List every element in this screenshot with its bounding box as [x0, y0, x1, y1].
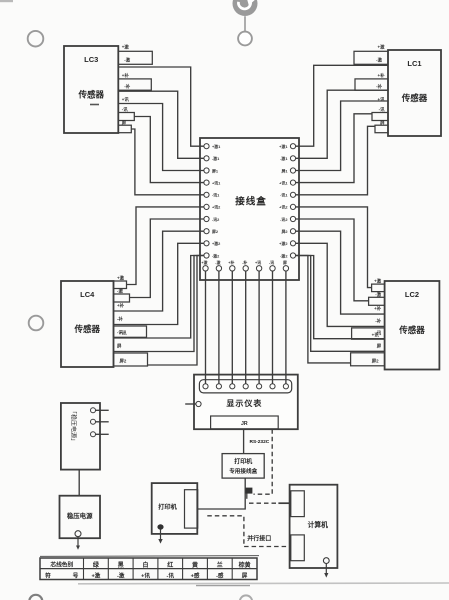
- svg-text:-激1: -激1: [212, 156, 220, 161]
- wire LC2-3 to junction R8: [296, 231, 385, 314]
- svg-text:+激: +激: [91, 572, 100, 580]
- wire LC4-5 to junction L10: [114, 256, 204, 339]
- svg-text:+激: +激: [122, 44, 130, 51]
- computer box 计算机: [290, 485, 338, 568]
- svg-text:-激: -激: [117, 288, 123, 295]
- junction box right terminal strip: [290, 144, 295, 149]
- svg-text:显示仪表: 显示仪表: [226, 398, 262, 408]
- LC1 stub block 3: [372, 113, 388, 121]
- wire LC4-4 to junction L9: [114, 243, 204, 324]
- dashed wire display to plug: [254, 429, 273, 494]
- svg-text:传感器: 传感器: [77, 90, 104, 100]
- svg-text:屏: 屏: [122, 119, 127, 126]
- svg-text:+激: +激: [201, 260, 207, 265]
- LC4 stub block 2: [114, 294, 130, 302]
- power control box: [61, 403, 100, 470]
- svg-text:兰: 兰: [217, 561, 223, 569]
- svg-text:+激2: +激2: [212, 241, 221, 246]
- wire LC1-1 to junction R1: [296, 65, 388, 146]
- svg-text:「稳压电源」: 「稳压电源」: [70, 408, 78, 444]
- svg-text:-讯: -讯: [375, 330, 381, 337]
- svg-text:-讯: -讯: [122, 106, 128, 113]
- svg-text:JR: JR: [241, 421, 248, 427]
- power control terminals: [91, 408, 96, 413]
- svg-text:屏2: 屏2: [280, 229, 288, 234]
- display instrument 显示仪表 box: [194, 375, 298, 430]
- svg-text:传感器: 传感器: [73, 324, 100, 334]
- computer port top: [291, 491, 305, 517]
- wire LC2-7 to junction R10: [296, 256, 351, 363]
- wire LC2-6 to junction R10: [296, 256, 385, 352]
- svg-text:屏1: 屏1: [280, 168, 288, 173]
- svg-text:屏: 屏: [117, 343, 122, 350]
- svg-text:-讯2: -讯2: [280, 217, 288, 222]
- wire LC3-1 to junction L1: [118, 67, 204, 146]
- rotate handle stem: [244, 16, 246, 31]
- svg-text:+讯: +讯: [141, 572, 150, 580]
- svg-text:棕黄: 棕黄: [238, 561, 251, 569]
- wire LC3-2 to junction L2: [118, 91, 204, 158]
- svg-text:+讯2: +讯2: [279, 205, 288, 210]
- svg-text:+讯: +讯: [255, 260, 261, 265]
- svg-text:号: 号: [73, 571, 79, 579]
- printer box 打印机: [152, 483, 198, 534]
- display terminal strip box: [199, 380, 291, 393]
- wire junction B6 to display: [272, 271, 274, 384]
- wire junction B4 to display: [245, 271, 247, 384]
- LC4 stub block 6: [114, 353, 148, 366]
- svg-text:-补: -补: [376, 83, 382, 90]
- selection handle top-left: [28, 31, 44, 47]
- svg-text:-激: -激: [117, 572, 125, 580]
- svg-text:+激: +激: [117, 275, 125, 282]
- svg-text:LC4: LC4: [80, 290, 95, 299]
- LC2 stub block 1: [372, 284, 385, 292]
- svg-text:黄: 黄: [192, 561, 198, 569]
- LC3 stub block 4: [118, 125, 131, 133]
- selection handle bottom-left arc: [29, 595, 42, 600]
- svg-text:稳压电源: 稳压电源: [67, 511, 93, 520]
- regulator ground: [75, 531, 81, 537]
- svg-text:+补: +补: [122, 72, 130, 79]
- wire LC3-4 to junction L4: [134, 117, 204, 183]
- svg-text:接线盒: 接线盒: [235, 196, 267, 208]
- wire LC4-7 to junction L10: [148, 256, 204, 366]
- printer adapter box 打印机专用接线盒: [222, 454, 264, 479]
- rotate handle circle: [238, 32, 252, 46]
- LC2 box: [385, 281, 440, 370]
- svg-text:-补: -补: [242, 260, 247, 265]
- wire LC4-1 to junction L6: [127, 207, 204, 285]
- junction box left terminal strip: [204, 144, 209, 149]
- wire junction B7 to display: [285, 271, 287, 384]
- svg-text:-感: -感: [216, 572, 224, 580]
- svg-text:绿: 绿: [93, 561, 100, 569]
- svg-text:+讯1: +讯1: [279, 180, 288, 185]
- svg-text:白: 白: [142, 561, 148, 569]
- junction box 接线盒: [200, 138, 299, 280]
- voltage regulator 稳压电源 box: [60, 496, 101, 539]
- svg-text:-讯1: -讯1: [280, 193, 288, 198]
- wire color table frame: [40, 558, 257, 580]
- svg-text:-补: -补: [124, 83, 130, 90]
- wire LC1-5 to junction R5: [296, 126, 375, 195]
- LC3 stub block 2: [118, 79, 151, 90]
- wire adapter to printer: [198, 478, 246, 509]
- wire LC2-1 to junction R6: [296, 207, 372, 288]
- LC4 box: [61, 281, 114, 367]
- svg-text:+感: +感: [191, 572, 200, 580]
- svg-text:-讯: -讯: [379, 106, 385, 113]
- wire LC2-2 to junction R7: [296, 219, 369, 301]
- svg-text:-激2: -激2: [212, 253, 220, 258]
- connector JR box: [211, 416, 279, 429]
- svg-text:芯线色别: 芯线色别: [50, 561, 73, 569]
- svg-text:-激1: -激1: [280, 156, 288, 161]
- svg-text:RS-232C: RS-232C: [250, 439, 270, 445]
- selection handle bottom-mid arc: [240, 595, 252, 600]
- svg-text:传感器: 传感器: [401, 93, 428, 103]
- LC4 stub block 1: [114, 281, 127, 289]
- wire LC3-3 to junction L3: [118, 104, 204, 171]
- svg-text:计算机: 计算机: [308, 520, 329, 529]
- wire junction B5 to display: [258, 271, 260, 384]
- LC1 stub block 1: [354, 51, 388, 64]
- LC1 stub block 2: [355, 79, 388, 90]
- svg-text:-激: -激: [375, 291, 381, 298]
- LC1 box: [388, 50, 441, 136]
- selection handle mid-left: [29, 316, 44, 331]
- svg-text:+讯1: +讯1: [212, 180, 221, 185]
- LC3 stub block 1: [118, 51, 152, 64]
- svg-text:屏: 屏: [242, 572, 248, 580]
- svg-text:-讯2: -讯2: [212, 217, 220, 222]
- wire LC1-3 to junction R3: [296, 101, 388, 171]
- wire LC4-3 to junction L8: [114, 231, 204, 311]
- LC1 stub block 4: [375, 125, 388, 133]
- svg-text:+激1: +激1: [279, 144, 288, 149]
- svg-text:+激2: +激2: [279, 241, 288, 246]
- svg-text:-补: -补: [375, 317, 381, 324]
- svg-text:屏: 屏: [377, 342, 382, 349]
- printer ground: [157, 524, 163, 529]
- svg-text:-讯: -讯: [117, 329, 123, 336]
- connector plug: [245, 488, 252, 494]
- svg-text:-激: -激: [124, 57, 130, 64]
- svg-text:屏: 屏: [282, 260, 287, 265]
- svg-text:+激: +激: [374, 278, 382, 285]
- wire junction B1 to display: [205, 271, 207, 384]
- LC2 stub block 6: [351, 353, 385, 366]
- junction box bottom terminal strip: [203, 266, 208, 271]
- svg-text:+补: +补: [374, 305, 382, 312]
- svg-text:-讯1: -讯1: [212, 193, 220, 198]
- wire junction B2 to display: [218, 271, 220, 384]
- svg-text:红: 红: [167, 561, 173, 569]
- svg-text:LC2: LC2: [405, 290, 419, 299]
- LC3 box: [64, 46, 118, 133]
- computer ground: [323, 558, 329, 564]
- svg-text:+补: +补: [378, 72, 386, 79]
- wire LC1-2 to junction R2: [296, 90, 388, 158]
- svg-text:-讯: -讯: [269, 260, 274, 265]
- svg-text:LC3: LC3: [84, 55, 98, 64]
- svg-text:符: 符: [45, 571, 51, 579]
- svg-text:+讯: +讯: [122, 96, 130, 103]
- svg-text:屏2: 屏2: [372, 357, 379, 364]
- svg-text:+补: +补: [228, 260, 234, 265]
- printer port box: [185, 490, 198, 528]
- svg-text:传感器: 传感器: [398, 325, 425, 335]
- wire junction B3 to display: [231, 271, 233, 384]
- svg-text:-补: -补: [117, 316, 123, 323]
- wire LC4-2 to junction L7: [130, 219, 204, 298]
- scan corner tick: [0, 0, 13, 2]
- svg-text:屏: 屏: [380, 119, 385, 126]
- LC2 stub block 4: [352, 328, 385, 339]
- wire LC2-4 to junction R9: [296, 243, 385, 326]
- wire power control to regulator: [78, 470, 80, 496]
- svg-text:+讯: +讯: [378, 96, 386, 103]
- svg-text:打印机: 打印机: [234, 457, 252, 465]
- dashed wire plug to computer RS232: [249, 502, 278, 504]
- svg-text:-激: -激: [215, 260, 220, 265]
- svg-text:+激1: +激1: [212, 144, 221, 149]
- display terminal circles: [203, 384, 208, 389]
- wire JR to printer adapter box: [243, 429, 245, 454]
- svg-text:-讯: -讯: [166, 572, 174, 580]
- solid lead into computer port: [278, 502, 290, 504]
- LC4 stub block 4: [114, 326, 147, 337]
- computer port bottom: [291, 535, 305, 561]
- svg-text:-激2: -激2: [280, 253, 288, 258]
- wire LC1-4 to junction R4: [296, 114, 372, 183]
- svg-text:专用接线盒: 专用接线盒: [229, 467, 257, 475]
- svg-text:LC1: LC1: [407, 59, 421, 68]
- svg-text:+讯2: +讯2: [212, 205, 221, 210]
- svg-text:+补: +补: [117, 302, 125, 309]
- svg-text:+激: +激: [378, 44, 386, 51]
- wire LC3-5 to junction L5: [131, 129, 204, 195]
- rotate handle icon: [233, 0, 258, 16]
- svg-text:打印机: 打印机: [158, 503, 177, 511]
- svg-text:-激: -激: [376, 57, 382, 64]
- dashed wire printer parallel: [207, 516, 290, 547]
- wire LC4-6 to junction L10: [114, 256, 204, 352]
- LC3 small mark: [90, 104, 99, 106]
- svg-text:黑: 黑: [118, 561, 124, 569]
- LC3 stub block 3: [118, 113, 134, 121]
- wire LC2-5 to junction R10: [296, 256, 385, 339]
- LC2 stub block 2: [369, 297, 385, 305]
- svg-text:屏1: 屏1: [211, 168, 219, 173]
- scan bottom shadow: [78, 582, 449, 585]
- svg-text:屏2: 屏2: [120, 358, 127, 365]
- svg-text:并行接口: 并行接口: [247, 535, 271, 543]
- svg-text:屏2: 屏2: [211, 229, 219, 234]
- display left terminal: [196, 401, 201, 406]
